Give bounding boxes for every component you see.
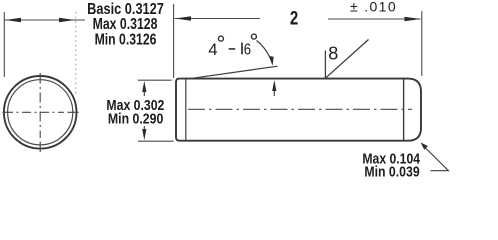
- leader arrowhead on construction line: [269, 56, 274, 66]
- side-view diameter down arrow: [143, 126, 145, 133]
- diameter dimension extension line (left): [3, 12, 5, 77]
- length dimension line left segment: [175, 18, 260, 20]
- side-view diameter bottom tick: [138, 140, 174, 142]
- leader from angle label: [257, 41, 271, 59]
- diameter value labels: [87, 1, 164, 49]
- chamfer line at left end: [185, 79, 187, 140]
- surface finish symbol leg: [324, 51, 326, 79]
- crown radius leader line: [424, 147, 449, 171]
- svg-text:Min 0.3126: Min 0.3126: [95, 31, 157, 49]
- surface finish symbol flank: [325, 40, 368, 79]
- side-view diameter top tick: [138, 79, 172, 81]
- diameter dimension left arrowhead: [5, 18, 21, 22]
- arrow to cylinder top line: [273, 86, 275, 96]
- length dimension line right segment: [328, 18, 421, 20]
- svg-text:Min 0.290: Min 0.290: [108, 111, 163, 127]
- horizontal centerline of end view: [3, 111, 14, 113]
- diameter dimension line: [4, 19, 85, 21]
- chamfer angle label: [208, 34, 256, 59]
- vertical centerline of end view: [39, 73, 41, 84]
- svg-text:Min 0.039: Min 0.039: [364, 164, 419, 180]
- diameter dimension right arrowhead: [59, 18, 75, 22]
- length dimension left extension line: [173, 4, 175, 78]
- length dimension right arrowhead: [405, 17, 421, 21]
- svg-text:6: 6: [244, 41, 251, 58]
- length dimension right extension line: [421, 11, 423, 76]
- svg-text:± .010: ± .010: [350, 0, 397, 15]
- crown radius leader arrowhead: [421, 142, 428, 149]
- pin end-view inner circle (chamfer edge): [8, 80, 73, 145]
- side-view diameter labels: [106, 97, 164, 127]
- length dimension left arrowhead: [175, 16, 191, 20]
- crown radius labels: [362, 150, 420, 180]
- svg-text:8: 8: [328, 44, 338, 64]
- pin end-view outer circle: [4, 76, 77, 149]
- diameter dimension extension line (right): [75, 12, 77, 94]
- svg-text:2: 2: [290, 6, 298, 28]
- pin side-view body: [176, 79, 421, 141]
- chamfer angle construction line: [189, 66, 278, 79]
- crown radius line at right end: [403, 79, 405, 140]
- side-view diameter up arrow: [143, 88, 145, 96]
- cylinder centerline: [188, 108, 412, 110]
- svg-text:4: 4: [208, 41, 217, 59]
